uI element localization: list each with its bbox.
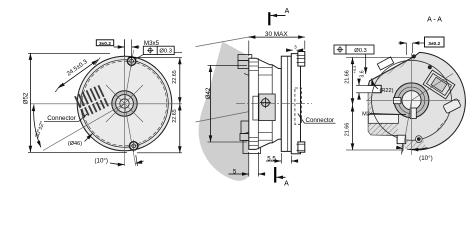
svg-text:Ø52: Ø52 (23, 92, 30, 104)
svg-text:5.5: 5.5 (267, 155, 276, 162)
svg-text:+0.3: +0.3 (353, 66, 357, 74)
svg-text:3±0.2: 3±0.2 (99, 41, 111, 47)
svg-text:A - A: A - A (427, 17, 442, 24)
svg-text:3.6: 3.6 (360, 70, 366, 77)
svg-text:(10°): (10°) (94, 157, 107, 164)
svg-text:3±0.2: 3±0.2 (428, 41, 440, 47)
svg-text:A: A (284, 180, 289, 187)
svg-text:A: A (285, 8, 290, 15)
svg-text:22.65: 22.65 (172, 109, 178, 123)
svg-text:21.66: 21.66 (344, 70, 350, 84)
svg-text:5: 5 (233, 168, 237, 175)
svg-text:3: 3 (294, 45, 297, 50)
svg-text:22.65: 22.65 (172, 70, 178, 84)
svg-text:(Ø46): (Ø46) (68, 141, 82, 147)
svg-text:Ø0.3: Ø0.3 (159, 49, 172, 55)
svg-text:Ø0.3: Ø0.3 (354, 48, 367, 54)
svg-text:M3x5: M3x5 (144, 40, 160, 47)
svg-text:21.66: 21.66 (344, 123, 350, 137)
svg-text:(10°): (10°) (419, 155, 432, 162)
svg-text:(R22): (R22) (380, 88, 394, 94)
svg-text:Ø42: Ø42 (205, 87, 212, 99)
svg-text:M3: M3 (362, 111, 370, 117)
svg-text:Connector: Connector (47, 115, 76, 122)
svg-text:Connector: Connector (306, 117, 335, 124)
svg-text:30 MAX: 30 MAX (265, 31, 288, 38)
